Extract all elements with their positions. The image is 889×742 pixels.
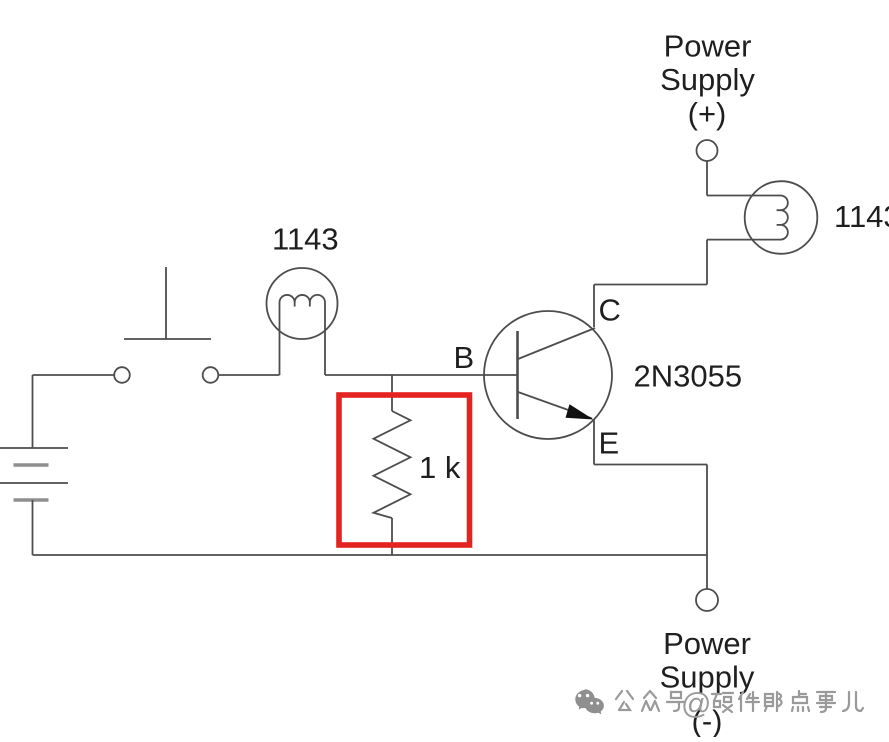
transistor Q1 base bar bbox=[516, 331, 519, 419]
resistor R1 lead top bbox=[391, 375, 393, 411]
resistor R1 lead bottom bbox=[391, 518, 393, 555]
wire lamp L2 bottom to collector bbox=[706, 240, 708, 285]
svg-text:(+): (+) bbox=[688, 96, 727, 131]
svg-text:@: @ bbox=[681, 688, 711, 721]
watermark wechat icon bbox=[575, 689, 604, 714]
svg-text:Power: Power bbox=[664, 28, 752, 63]
transistor Q1 emitter diagonal bbox=[518, 392, 592, 419]
power supply - terminal bbox=[696, 589, 718, 611]
lamp L2 filament bbox=[707, 196, 788, 240]
watermark text 公众号@硬件那点事儿 bbox=[616, 688, 863, 721]
transistor Q1 emitter arrow bbox=[566, 404, 594, 419]
wire emitter down bbox=[593, 419, 595, 465]
battery B1 long plate 1 bbox=[0, 447, 68, 449]
wire emitter horizontal bbox=[594, 464, 707, 466]
svg-text:Supply: Supply bbox=[660, 62, 755, 97]
svg-text:B: B bbox=[454, 340, 475, 375]
bottom rail wire bbox=[33, 554, 707, 556]
wire down from switch to battery bbox=[32, 375, 34, 448]
svg-text:1143: 1143 bbox=[834, 199, 889, 234]
wire battery+ to switch left contact bbox=[33, 374, 115, 376]
wire switch to lamp L1 bbox=[219, 374, 280, 376]
wire collector top horizontal bbox=[594, 284, 707, 286]
svg-text:1143: 1143 bbox=[272, 222, 339, 257]
wire collector up bbox=[593, 285, 595, 328]
svg-text:E: E bbox=[599, 426, 620, 461]
pushbutton switch S1 actuator bbox=[124, 267, 211, 339]
transistor Q1 collector diagonal bbox=[518, 328, 595, 359]
watermark icon eyes bbox=[578, 694, 599, 705]
svg-text:C: C bbox=[599, 293, 621, 328]
svg-text:Power: Power bbox=[663, 626, 751, 661]
battery B1 long plate 2 bbox=[0, 482, 68, 484]
base wire lamp L1 to transistor base bbox=[325, 374, 517, 376]
lamp L2 bulb circle bbox=[745, 181, 818, 254]
wire down to power supply - bbox=[706, 465, 708, 590]
switch right contact bbox=[203, 367, 219, 383]
wire power supply + down to lamp L2 bbox=[706, 161, 708, 196]
wire battery- down to bottom rail bbox=[32, 500, 34, 555]
svg-text:1 k: 1 k bbox=[419, 450, 461, 485]
switch left contact bbox=[114, 367, 130, 383]
battery B1 short plate 2 bbox=[14, 498, 49, 502]
lamp L1 bulb circle bbox=[267, 268, 338, 339]
transistor Q1 circle bbox=[484, 311, 612, 439]
svg-text:2N3055: 2N3055 bbox=[634, 359, 743, 394]
battery B1 short plate 1 bbox=[14, 463, 49, 467]
red highlight box around resistor R1 bbox=[339, 395, 470, 545]
lamp L1 filament bbox=[280, 295, 326, 375]
power supply + terminal bbox=[697, 140, 718, 161]
resistor R1 zigzag bbox=[374, 411, 411, 518]
